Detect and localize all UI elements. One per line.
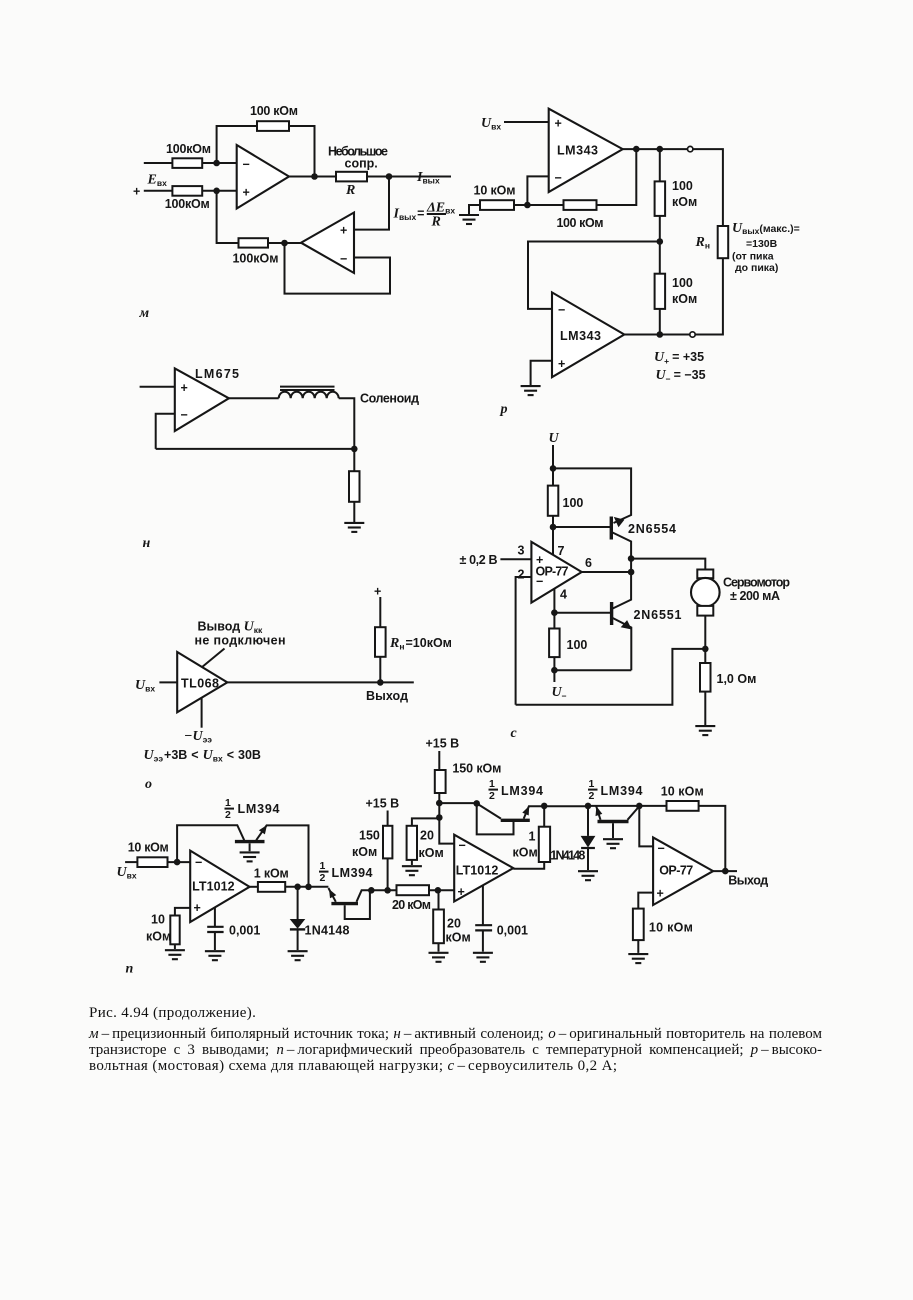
resistor 10kOm feedback A3 [667,801,699,811]
resistor 100kOhm R2 (noninverting input) [172,186,202,196]
wire +15V top down [438,751,440,770]
node dot U [550,465,557,472]
ground G1 [459,215,479,224]
diode D2 body [581,836,596,848]
terminal circle bottom [690,332,695,337]
wire base Q2 [554,612,610,614]
resistor 100 top [548,486,559,516]
svg-text:R: R [431,215,441,230]
wire output [289,176,451,178]
resistor 10kOm [480,200,514,210]
op-amp U1 [237,145,289,209]
node dot n [351,446,358,453]
inductor core lines [280,387,335,390]
svg-text:Соленоид: Соленоид [360,392,419,406]
svg-text:сопр.: сопр. [345,157,378,171]
node dot D2 [585,803,592,810]
wire to follower noninv [354,177,389,230]
svg-text:100: 100 [672,276,693,290]
feedback wire bottom s [516,649,706,705]
svg-text:Uвх: Uвх [135,678,155,694]
wire Uee pin [201,698,203,728]
svg-text:+: + [194,901,201,915]
wire C1 to gnd [214,932,216,950]
svg-text:Rн: Rн [695,235,710,251]
transistor Q1 2N6554 bar [610,517,613,540]
svg-text:U+= +35: U+= +35 [654,350,704,366]
svg-text:100 кОм: 100 кОм [250,104,298,118]
node dot emitter junction [628,555,635,562]
node dot out junction [628,569,635,576]
svg-text:п: п [126,962,134,977]
wire Qc base loop [477,803,514,834]
svg-text:+15 В: +15 В [366,797,400,811]
node dot inv [524,202,531,209]
node dot noninv input [213,188,220,195]
node dot base Q1 [550,524,557,531]
node dot vyxod [377,679,384,686]
svg-text:+: + [657,887,664,901]
wire pin3 input [500,558,531,560]
node dot 1kOm top [541,803,548,810]
svg-text:−: − [243,158,250,172]
resistor 10kOm to gnd [170,916,179,945]
wire U- stub [553,670,555,682]
svg-text:Uвх: Uвх [481,116,501,132]
svg-text:U−: U− [552,685,567,701]
svg-text:LT1012: LT1012 [192,880,235,894]
node dot sense [702,646,709,653]
op-amp U2 (follower, points left) [301,213,354,274]
svg-text:U: U [549,431,560,446]
svg-text:−Uээ: −Uээ [184,729,212,745]
wire coil to node [339,398,355,449]
svg-text:LM394: LM394 [332,866,373,880]
node dot A2 noninv [435,887,442,894]
motor brush bottom [697,606,713,616]
svg-text:кОм: кОм [352,845,377,859]
wire 20kv1 bottom [411,860,413,865]
svg-text:н: н [143,536,151,551]
wire Qc emitter [524,806,589,818]
wire U down [552,445,554,468]
svg-text:100: 100 [672,179,693,193]
svg-text:10 кОм: 10 кОм [474,184,516,198]
wire feedback bottom [156,448,355,450]
arrow Qa emitter [259,825,267,834]
wire C2 to gnd [482,930,484,951]
diode D1 1N4148 wire [297,887,299,920]
resistor Rn o [375,627,386,657]
wire 1kv bottom to A2 out [513,862,544,869]
svg-text:20: 20 [447,917,461,931]
wire Qd base [612,823,614,838]
wire divider middle [659,216,661,274]
svg-text:R: R [345,183,355,198]
ground 20kv2 [429,953,449,962]
svg-text:р: р [500,402,508,417]
ground G3 [344,523,364,532]
svg-text:кОм: кОм [672,292,697,306]
svg-text:+: + [133,185,140,199]
resistor 20kOm horizontal [397,885,430,895]
wire top rail to Qc [439,802,476,804]
resistor 10kOm A3+ [633,909,644,941]
ground 20kv1 [402,866,422,875]
ground C2 [473,953,493,962]
wire R100b to node [553,657,555,670]
svg-text:0,001: 0,001 [497,924,528,938]
pin7 wire [552,527,554,555]
svg-text:10 кОм: 10 кОм [128,841,169,855]
arrow Qd emitter [596,806,603,816]
svg-text:кОм: кОм [513,846,538,860]
node dot 150k [384,887,391,894]
resistor 150kOm top [435,770,446,793]
svg-text:100кОм: 100кОм [165,197,210,211]
resistor 20kOm vert1 [407,826,417,860]
node dot output [386,173,393,180]
transistor Qa 0.5LM394 bar [235,840,265,843]
wire output o [227,681,413,683]
capacitor C2 wire top [482,885,484,925]
wire fb up to output [597,149,637,205]
svg-text:1 кОм: 1 кОм [254,867,289,881]
svg-text:2N6551: 2N6551 [634,608,682,622]
svg-text:20 кОм: 20 кОм [392,898,431,912]
svg-text:Выход: Выход [728,874,768,888]
svg-text:−: − [459,839,466,853]
node dot output bottom [657,331,664,338]
wire Rn to plus [379,597,381,627]
svg-text:−: − [558,303,565,317]
svg-text:до пика): до пика) [735,262,778,274]
svg-text:−: − [340,252,347,266]
resistor 150kOm middle [383,826,392,859]
wire motor to node [704,616,706,649]
wire resistor to gnd [353,502,355,523]
op-amp A2 LT1012 [454,835,513,902]
node dot inv input [213,160,220,167]
svg-text:100кОм: 100кОм [166,142,211,156]
svg-text:2: 2 [489,790,495,802]
wire to inv node [168,861,191,863]
svg-text:150: 150 [359,829,380,843]
svg-text:LT1012: LT1012 [456,864,499,878]
op-amp A1 LT1012 [190,851,249,922]
wire inv input top amp [527,176,548,205]
svg-text:Iвых: Iвых [416,170,440,186]
svg-text:кОм: кОм [419,846,444,860]
wire to Rn top [693,149,723,226]
wire pin2 [516,577,532,705]
wire motor top [631,559,705,570]
ground Qa [240,852,260,861]
svg-text:(от пика: (от пика [732,251,774,263]
wire inv feedback left [156,414,175,449]
node dot inv A1 [174,859,181,866]
terminal circle top [688,146,693,151]
wire output top [623,148,688,150]
arrow Qc emitter [522,806,529,816]
node dot follower output [281,240,288,247]
resistor 100kOhm R3 (feedback) [257,121,289,131]
resistor Rn [718,226,729,258]
svg-text:± 200 мА: ± 200 мА [730,589,780,603]
wire 10k to gnd [637,940,639,953]
wire after 1kOm [285,886,328,888]
diode D2 wire top [587,806,589,836]
resistor 100kOm divider bottom [655,274,666,309]
wire 20kv1 top jog [412,818,439,825]
node dot fb [633,146,640,153]
wire divider bottom [659,309,661,335]
op-amp U3 LM343 top [549,109,623,192]
capacitor C2 plates [475,925,492,930]
svg-text:1: 1 [529,830,536,844]
svg-text:Uээ+3В<Uвх<30В: Uээ+3В<Uвх<30В [144,748,261,764]
wire 150k to node [387,858,389,890]
wire feedback up/top to Qa collector [177,825,244,862]
svg-text:Сервомотор: Сервомотор [723,576,790,590]
svg-text:+: + [558,357,565,371]
wire to gnd s [704,692,706,727]
wire input pi [125,861,137,863]
wire to Rn bottom [695,258,723,334]
svg-text:1,0 Ом: 1,0 Ом [717,672,757,686]
node dot Qb base tie [368,887,375,894]
transistor Qc bar [501,819,530,822]
svg-text:−: − [181,408,188,422]
svg-text:2N6554: 2N6554 [628,522,676,536]
wire Q1 collector [613,533,632,609]
transistor Qb bar [331,902,358,905]
svg-text:Uвх: Uвх [117,865,137,881]
svg-text:кОм: кОм [672,195,697,209]
inductor solenoid coil [279,392,339,398]
node dot j2 [436,814,443,821]
pin4 wire [553,589,555,613]
diode D1 body [290,919,306,929]
svg-text:1N4148: 1N4148 [305,924,350,938]
ground A3+ [628,954,648,963]
wire inverting input [144,162,237,164]
node dot Qc [473,800,480,807]
wire feedback top [217,126,315,177]
svg-text:100: 100 [567,638,588,652]
wire pin4 to R100 bottom [553,613,555,629]
svg-text:U−= −35: U−= −35 [656,368,706,384]
svg-text:3: 3 [518,544,525,558]
wire from noninv node down [217,191,239,243]
capacitor C1 plates [207,927,223,932]
wire A3 output [713,870,737,872]
resistor 1.0 Om [700,663,711,692]
wire divider top [659,149,661,181]
svg-text:2: 2 [589,790,595,802]
svg-text:2: 2 [320,872,326,884]
wire input o [159,681,177,683]
svg-text:Eвх: Eвх [147,173,168,189]
caption body [89,1026,822,1075]
wire Qb collector [357,890,397,902]
op-amp U6 TL068 [177,652,227,712]
svg-text:2: 2 [225,809,231,821]
svg-text:+15 В: +15 В [426,737,460,751]
resistor 10kOm input [137,857,167,867]
wire D1 to gnd [297,929,299,950]
svg-text:кОм: кОм [446,931,471,945]
ground G2 [521,386,541,395]
svg-text:1: 1 [489,778,495,790]
wire Qa base [249,843,251,851]
wire 150kt down to A2 inv [439,793,454,844]
ground A1+ [165,950,185,959]
svg-text:−: − [195,856,202,870]
svg-text:150 кОм: 150 кОм [452,762,501,776]
op-amp U7 OP-77 [531,542,581,603]
svg-text:LM394: LM394 [601,784,643,798]
wire node to R sense [704,649,706,663]
wire R100 to node7 [552,516,554,527]
svg-text:10: 10 [151,913,165,927]
op-amp U4 LM343 bottom [552,292,624,377]
resistor 100kOm fb [564,200,597,210]
svg-text:100: 100 [563,496,584,510]
arrow Q2 emitter (NPN out) [621,620,632,629]
node dot Uminus [551,667,558,674]
resistor sense [349,471,360,502]
wire between resistors [514,204,564,206]
wire 1kv top [543,806,545,827]
capacitor 0.001 #1 top wire [214,907,216,926]
wire output to coil [229,397,279,399]
svg-text:ОР-77: ОР-77 [659,864,693,878]
svg-text:± 0,2 В: ± 0,2 В [460,553,498,567]
svg-text:+: + [458,885,465,899]
wire 20kv2 bottom [438,943,440,951]
resistor 1kOm [258,882,285,892]
wire 20kh to A2 [429,889,454,891]
node dot diode [294,884,301,891]
wire Qb base loop [345,890,370,919]
svg-text:+: + [340,224,347,238]
wire pin6 output [582,571,631,573]
wire fb to output [699,806,726,871]
svg-text:LM343: LM343 [560,329,601,343]
motor brush top [697,570,713,579]
svg-text:7: 7 [558,544,565,558]
wire noninv A1 [175,908,190,916]
svg-text:Rн=10кОм: Rн=10кОм [389,636,452,652]
wire fb2 to bottom inv [528,242,660,309]
wire noninv bottom to gnd [531,361,552,386]
svg-text:LM675: LM675 [195,367,239,381]
caption line 1 [89,1005,256,1021]
wire gnd stub [469,205,480,215]
node dot feedback/output [311,173,318,180]
ground G4 [695,726,715,735]
wire node to emitter Q2 [554,669,631,671]
svg-text:TL068: TL068 [181,677,219,691]
op-amp A3 OP-77 [653,837,713,905]
wire mid rail [589,805,667,807]
svg-text:100 кОм: 100 кОм [557,216,604,230]
wire 20kv2 top [438,890,440,909]
resistor 100 bottom [549,629,560,658]
svg-text:Iвых=: Iвых= [393,207,425,223]
resistor 20kOm vert2 [433,910,444,944]
node dot pin4/base Q2 [551,609,558,616]
op-amp U5 LM675 [175,368,229,431]
ground Qd [603,839,623,848]
wire Rn up [379,657,381,683]
node dot A3 out [722,868,729,875]
wire A3 noninv [638,893,653,909]
svg-text:+: + [555,117,562,131]
svg-text:Uвых(макс.)=: Uвых(макс.)= [732,221,800,236]
node dot divider [657,146,664,153]
resistor 100kOhm R4 [239,238,269,247]
resistor 1kOm vert [539,827,550,862]
node dot j1 [436,800,443,807]
node dot fb pi [305,884,312,891]
ground D1 [288,951,308,960]
wire Qd collector [628,806,640,820]
motor M body [691,578,720,607]
svg-text:кОм: кОм [146,930,171,944]
resistor R (small resistance) [336,172,367,182]
transistor Q2 2N6551 bar [610,602,613,625]
svg-text:LM394: LM394 [238,802,280,816]
ground C1 [205,951,225,960]
svg-text:6: 6 [585,556,592,570]
wire output bottom [624,334,690,336]
svg-text:не подключен: не подключен [195,634,286,648]
svg-text:м: м [139,306,150,321]
svg-text:LM394: LM394 [501,784,543,798]
node dot A3 inv [636,803,643,810]
wire +15V down [387,811,389,826]
svg-text:10 кОм: 10 кОм [661,785,704,799]
svg-text:1: 1 [589,778,595,790]
wire follower feedback [285,243,391,294]
svg-text:20: 20 [420,829,434,843]
wire noninverting input [144,190,237,192]
wire A1 output [250,886,258,888]
svg-text:=130В: =130В [746,238,778,250]
svg-text:ОР-77: ОР-77 [536,565,569,579]
wire Qc collector diag [477,803,501,818]
svg-text:100кОм: 100кОм [233,252,279,266]
svg-text:4: 4 [560,588,567,602]
svg-text:1: 1 [225,797,231,809]
svg-text:о: о [145,777,152,792]
ground D2 [578,871,598,880]
svg-text:2: 2 [518,568,525,582]
arrow Q1 emitter (PNP into base) [614,517,625,527]
svg-text:Выход: Выход [366,689,408,703]
svg-text:0,001: 0,001 [229,924,260,938]
transistor Qd emitter [596,806,600,820]
svg-text:1: 1 [320,860,326,872]
transistor Qb emitter [328,888,335,902]
svg-text:+: + [181,381,188,395]
resistor 100kOm divider top [655,181,666,216]
wire to gnd A1 [174,944,176,949]
wire top right to Q1 emitter [553,468,631,523]
wire node to resistor [353,449,355,471]
